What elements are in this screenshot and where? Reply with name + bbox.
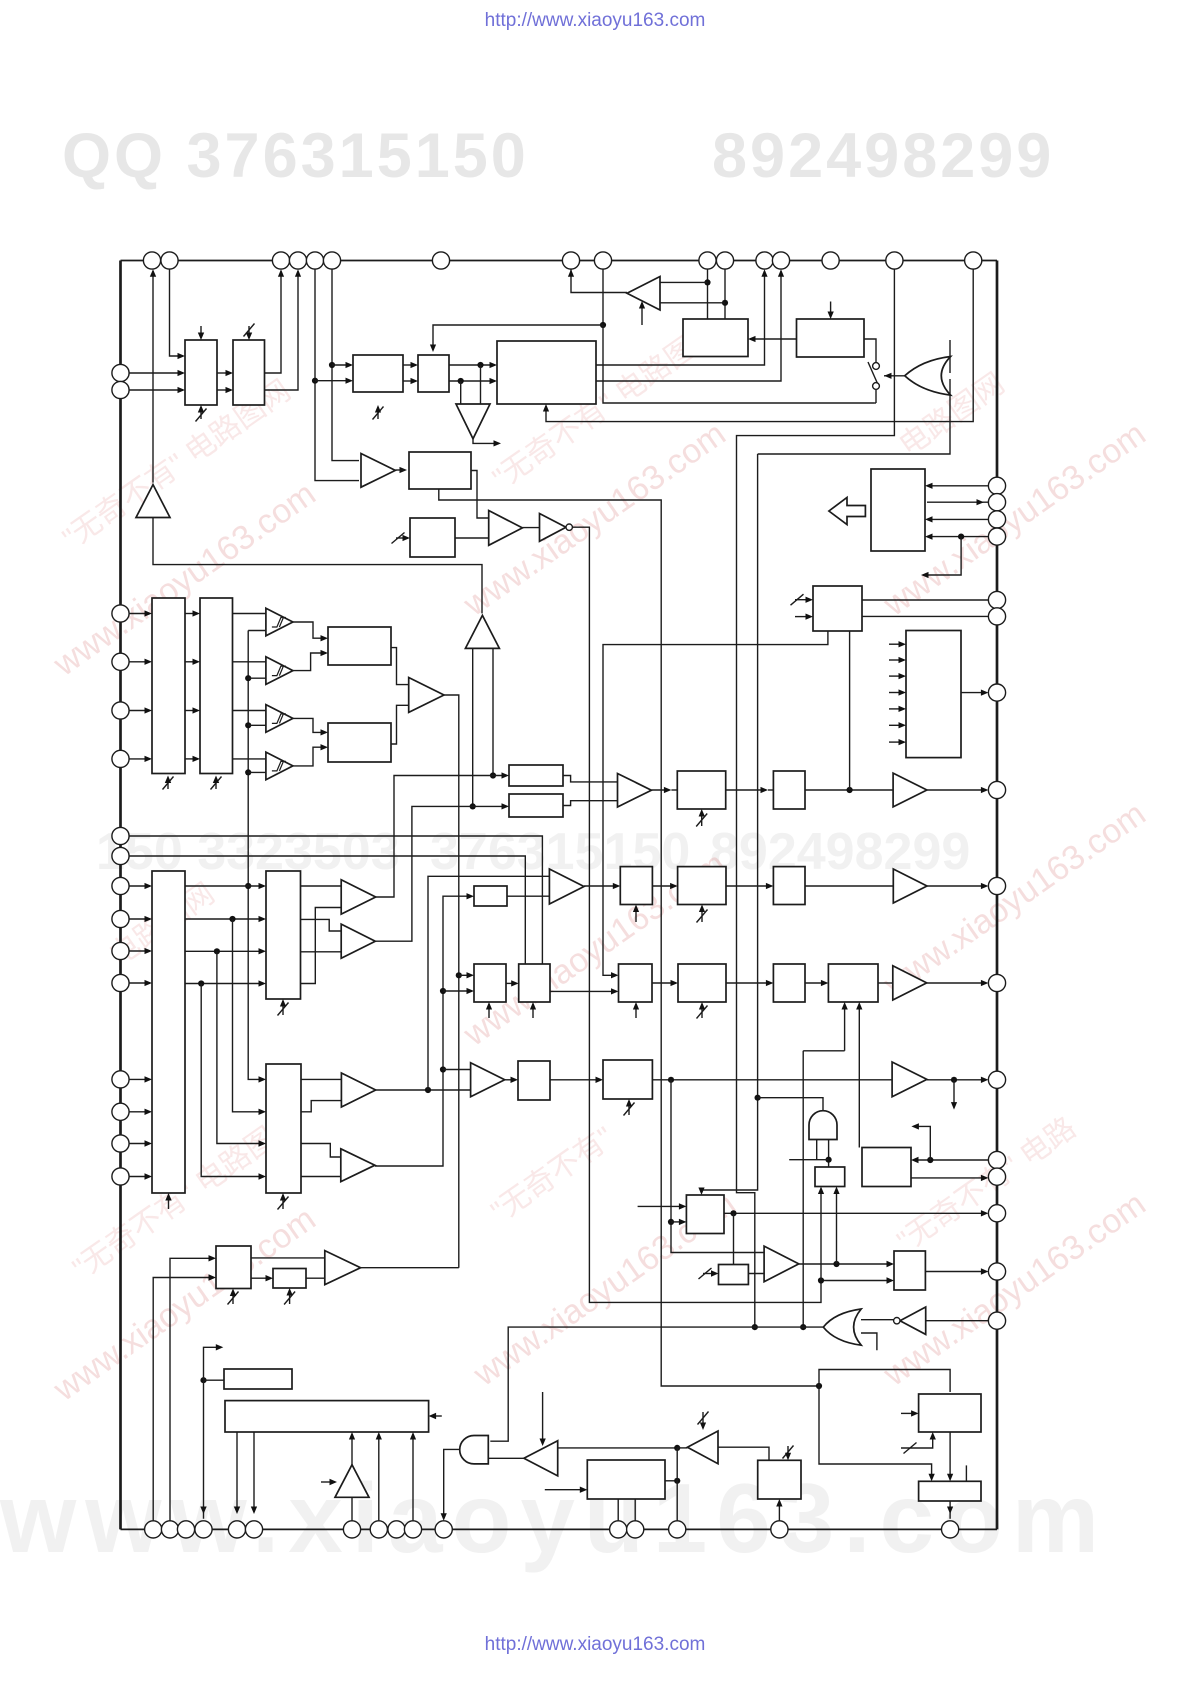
wire U29 to U30 — [726, 885, 771, 887]
wire stub into U41 top — [965, 1465, 967, 1481]
buffer B6 — [618, 774, 652, 808]
top pin 6 (x=332) — [323, 252, 340, 269]
wire J3 down to comparator — [480, 365, 482, 404]
wire pin2 to U1 input — [170, 269, 184, 356]
wire left pin y856 run to U27 top — [129, 856, 525, 964]
wire stub into U20 y=708.9 — [889, 708, 904, 710]
wire stub arrow into A3 left — [321, 1481, 335, 1483]
node J6 — [704, 279, 710, 285]
node J17 — [425, 1087, 431, 1093]
wire U44L out to J27 riser — [665, 1480, 677, 1482]
wire J5 to U4 top — [433, 325, 603, 350]
wire slashed stub into U19 — [795, 599, 811, 601]
node J8 — [752, 1324, 758, 1330]
inverter B20 left-pointing with slash — [687, 1431, 718, 1464]
wire U24 out3 to B11 — [301, 1144, 341, 1158]
watermark top url — [0, 10, 1190, 32]
block U24 — [266, 1064, 301, 1193]
node ST2 ref — [245, 675, 251, 681]
wire U45 out to B21 — [251, 1257, 325, 1259]
wire ST4 out to U13 — [293, 747, 326, 766]
wire G3 output run — [490, 1327, 823, 1441]
hollow arrow pointing left — [829, 498, 866, 525]
wire node J1 to U3 — [315, 380, 351, 382]
wire arrow into B1 bottom — [641, 303, 643, 325]
block U37 — [815, 1167, 845, 1187]
right pin (y=600) — [988, 591, 1005, 608]
wire U31 to U32 — [652, 982, 676, 984]
bottom pin (x=237) — [228, 1521, 245, 1538]
wire U44L to bottom pin a — [617, 1499, 619, 1521]
wire U20 out to right pin — [961, 692, 986, 694]
buffer B16 — [892, 1062, 927, 1097]
block interface U21 — [871, 469, 925, 551]
node J25 — [833, 1261, 839, 1267]
wire U15 out jog to buffer B6 — [563, 801, 618, 806]
wire stub into U19 — [795, 616, 811, 618]
wire B10 out right with riser x430 — [376, 1089, 471, 1091]
wire U33 to U34 — [805, 982, 826, 984]
right pin (y=616.4) — [988, 608, 1005, 625]
wire B15 to right pin — [927, 982, 987, 984]
wire J19 stub down — [953, 1080, 955, 1108]
wire bottom pin x170 up to U45 in1 — [170, 1258, 214, 1521]
block U25 — [474, 886, 507, 906]
bottom pin (x=677.2) — [669, 1521, 686, 1538]
node J16 — [440, 988, 446, 994]
top pin 10 (x=707.5) — [699, 252, 716, 269]
wire U2 out to top pin3 — [265, 271, 282, 373]
right pin (y=536.6) — [988, 528, 1005, 545]
AND gate G2 dome — [809, 1111, 837, 1140]
slashed clock U17 bottom — [696, 814, 707, 827]
block U36 — [603, 1060, 652, 1099]
AND gate G4 left-pointing — [460, 1436, 489, 1464]
block U23 — [266, 871, 301, 999]
wire right pin to B18 — [926, 1320, 989, 1322]
watermark bottom url — [0, 1634, 1190, 1656]
bottom pin (x=378.8) — [370, 1521, 387, 1538]
wire slashed clock into U1 bottom — [200, 407, 202, 419]
block U4 — [418, 355, 449, 392]
slashed into U44 top — [783, 1446, 794, 1459]
block U43 — [894, 1251, 925, 1290]
wire U8 bottom long run x661 — [439, 489, 819, 1386]
left pin 28 (y=983) — [112, 974, 129, 991]
slashed clock U32 bottom — [697, 1006, 708, 1019]
node r2 — [229, 916, 235, 922]
buffer B1 left-pointing — [627, 277, 660, 311]
block U8 — [409, 452, 471, 489]
right pin (y=1271.5) — [988, 1263, 1005, 1280]
wire A1 out to top pin1 — [152, 271, 154, 482]
wire B19 input y1448 net — [558, 1447, 678, 1449]
buffer B21 — [325, 1251, 361, 1285]
wire B5 out down x459 — [444, 695, 459, 1268]
wire G4 out to bottom pin — [444, 1449, 460, 1518]
wire comparator out stub — [473, 439, 499, 444]
wire U30 to buffer B14 — [805, 885, 893, 887]
slashed clock U36 bottom — [624, 1103, 635, 1116]
block U12 — [328, 627, 391, 665]
wire J16 to U27 — [443, 990, 472, 992]
big driver left leg — [472, 648, 474, 806]
left pin 29 (y=1079.4) — [112, 1071, 129, 1088]
top pin 16 (x=973.2) — [965, 252, 982, 269]
wire top pin11 down to U6 — [724, 269, 726, 319]
wire U1 to U2 b — [217, 389, 231, 391]
wire A1 input from y565 run — [153, 518, 482, 614]
wire left pin17 to U1 — [129, 372, 183, 374]
slashed clock into U3 bottom — [373, 407, 384, 420]
block U39 — [686, 1195, 724, 1234]
reference vertical x248 for schmitt lower inputs — [248, 630, 266, 632]
clock U31 bottom — [635, 1004, 637, 1018]
wire U26 to U27 — [506, 982, 517, 984]
wire U32 to U33 — [726, 982, 771, 984]
wire U25 out to B13 low — [507, 895, 549, 897]
buffer B5 — [409, 678, 444, 713]
wire slashed stub into U42 — [703, 1273, 717, 1275]
wire left pin y836 run to U27 top — [129, 836, 542, 964]
arrow into U8 — [400, 467, 408, 473]
wire G2 bottom left leg — [816, 1140, 818, 1160]
watermark gray QQ numbers top — [62, 120, 529, 192]
node J3 — [477, 362, 483, 368]
wire U34 to buffer B15 — [878, 982, 893, 984]
node J15 — [440, 1066, 446, 1072]
wire U28 to U29 — [652, 885, 675, 887]
wire U35 to U36 — [550, 1079, 601, 1081]
big driver triangle A2 up — [465, 615, 499, 648]
wire B17 out to U43 — [799, 1263, 892, 1265]
wire U23 out4 to B8 low — [301, 908, 342, 984]
wire top pin9 down / across y403 — [602, 269, 604, 325]
wire U10 to U11 row4 — [185, 758, 198, 760]
node ST4 ref — [245, 769, 251, 775]
wire U11 to schmitt row2 — [233, 661, 266, 663]
slashed clock U24 bottom — [278, 1197, 289, 1210]
wire left pin to U22L y=919 — [129, 918, 150, 920]
wire U14 out jog to buffer B6 — [563, 776, 618, 782]
wire U43 out to right pin — [925, 1271, 986, 1273]
wire G2 bottom right leg to U37 — [828, 1140, 830, 1168]
right pin (y=790) — [988, 781, 1005, 798]
node AB out1 branch — [245, 883, 251, 889]
block U9 — [410, 518, 455, 557]
node J12 — [490, 772, 496, 778]
watermark gray url bottom — [0, 1462, 1108, 1575]
left pin 23 (y=836) — [112, 827, 129, 844]
buffer B15 — [893, 966, 927, 1000]
long vertical x757 from y454 — [702, 454, 758, 1193]
node J23 — [668, 1219, 674, 1225]
wire U22L out row2 to U23 — [185, 918, 264, 920]
block U13 — [328, 723, 391, 762]
wire left pin to U22L y=951 — [129, 950, 150, 952]
wire U8 out to buffer B3 — [471, 471, 489, 519]
clock U27 bottom — [532, 1004, 534, 1018]
top pin 3 (x=281) — [272, 252, 289, 269]
wire J15 to B12 upper — [443, 1069, 471, 1071]
right pin (y=519.4) — [988, 511, 1005, 528]
wire up to switch contact — [875, 390, 877, 404]
block U29 — [678, 867, 726, 905]
block U31 — [619, 964, 653, 1002]
node J20 — [826, 1157, 832, 1163]
wire J25 up to U37 — [836, 1189, 838, 1265]
node J19 — [951, 1077, 957, 1083]
wire bottom pin x352 to A3 base — [351, 1497, 353, 1521]
right pin (y=502.2) — [988, 494, 1005, 511]
right pin (y=1176.7) — [988, 1168, 1005, 1185]
node r3 — [214, 948, 220, 954]
top pin 7 (x=441) — [432, 252, 449, 269]
wire J23 to U39 — [671, 1221, 684, 1223]
wire buffer B9 out up to U15 input — [375, 806, 507, 941]
wire slashed input into U2 top — [248, 326, 250, 338]
top pin 2 (x=169.5) — [161, 252, 178, 269]
node J18 — [668, 1077, 674, 1083]
wire node J2 to U3 — [332, 364, 351, 366]
wire J10 up to U40 top — [819, 1370, 950, 1393]
wire B20 input from U44 top — [718, 1447, 769, 1460]
node J2 — [329, 362, 335, 368]
wire ST3 out to U13 — [293, 718, 326, 732]
switch S1 contacts — [873, 363, 880, 370]
block U14 — [509, 765, 563, 786]
node J24 — [730, 1210, 736, 1216]
buffer B7 — [893, 773, 927, 807]
left pin 32 (y=1176.5) — [112, 1168, 129, 1185]
left pin 25 (y=886) — [112, 877, 129, 894]
top pin 8 (x=571) — [562, 252, 579, 269]
wire stub into U20 y=644.2 — [889, 643, 904, 645]
wire U9 out to B3 — [455, 537, 489, 539]
left pin 21 (y=710.5) — [112, 702, 129, 719]
wire slashed into B20 top — [702, 1412, 704, 1428]
block U38 — [862, 1148, 911, 1187]
wire U7 to switch — [864, 339, 876, 363]
block U44L — [587, 1460, 665, 1499]
bottom pin (x=413) — [404, 1521, 421, 1538]
bottom pin (x=618.2) — [610, 1521, 627, 1538]
block U44 — [758, 1460, 801, 1499]
schmitt trigger ST4 — [266, 752, 293, 780]
left pin 19 (y=613.5) — [112, 605, 129, 622]
wire top pin16 down along y421 to U5 bottom — [546, 269, 973, 421]
wire bottom pin x153 up to U45 in2 — [153, 1278, 214, 1521]
left pin 30 (y=1111.8) — [112, 1103, 129, 1120]
buffer B9 — [341, 924, 375, 958]
buffer B13 — [549, 869, 584, 904]
amp triangle A1 up — [136, 485, 170, 518]
wire U22L out row3 to U23 — [185, 950, 264, 952]
wire B16 to right pin — [927, 1079, 987, 1081]
wire U44L to bottom pin b — [634, 1499, 636, 1521]
bottom pin (x=443.7) — [435, 1521, 452, 1538]
wire U48 to bottom pin a — [236, 1432, 238, 1512]
buffer B11 — [341, 1149, 375, 1182]
node J10 — [816, 1383, 822, 1389]
block U34 — [828, 964, 878, 1002]
block mux U22L — [152, 871, 185, 1193]
node J21 — [927, 1157, 933, 1163]
top pin 14 (x=830.6) — [822, 252, 839, 269]
wire U10 to U11 row1 — [185, 613, 198, 615]
wire U24 out4 to B11 low — [301, 1176, 341, 1178]
wire U1 to U2 a — [217, 372, 231, 374]
schmitt trigger ST3 — [266, 705, 293, 733]
slashed clock U46 bottom — [284, 1292, 295, 1305]
wire top pin6 down to node — [332, 269, 359, 460]
wire stub into U44L — [545, 1489, 586, 1491]
wire U17 to U18 — [726, 789, 766, 791]
wire right pin to U21 a — [927, 485, 988, 487]
wire left pin to U10 row4 — [129, 758, 150, 760]
right pin (y=886) — [988, 877, 1005, 894]
wire left pin to U10 row3 — [129, 710, 150, 712]
wire J17 up to B13 upper — [428, 876, 549, 1090]
node J7 — [722, 300, 728, 306]
clock U28 bottom — [635, 907, 637, 923]
wire U12 out to buffer B5 — [391, 648, 409, 685]
buffer B14 — [893, 869, 927, 903]
block U15 — [509, 794, 563, 817]
wire ST1 out to U12 — [293, 622, 326, 638]
block input reg U11 — [200, 598, 233, 774]
wire left pin to U10 row1 — [129, 613, 150, 615]
wire B13 to U28 — [584, 885, 618, 887]
wire U45 to U46 — [251, 1277, 271, 1279]
wire B7 to right pin — [927, 789, 987, 791]
wire U11 to schmitt row4 — [233, 758, 266, 760]
wire U13 out to buffer B5 — [391, 705, 409, 744]
wire U34 bottom to x803 net — [844, 1004, 846, 1051]
wire U36 out to buffer B16 — [652, 1079, 892, 1081]
wire stub into U39 — [638, 1205, 685, 1207]
wire U19 out to right pin b — [862, 615, 988, 617]
node J4 — [458, 378, 464, 384]
watermark gray numbers middle — [96, 822, 400, 882]
block register U48 — [225, 1401, 429, 1432]
schmitt trigger ST1 — [266, 608, 293, 636]
bottom pin (x=396.5) — [388, 1521, 405, 1538]
buffer B12 — [471, 1063, 505, 1097]
wire U10 to U11 row2 — [185, 661, 198, 663]
right pin (y=983) — [988, 974, 1005, 991]
block decoder U20 — [906, 631, 961, 758]
wire U22L out row1 to U23 — [185, 885, 264, 887]
wire J18 down x671 — [671, 1080, 764, 1253]
wire J7 to B1 in b — [660, 302, 725, 304]
wire U11 to schmitt row1 — [233, 613, 266, 615]
IC outline border — [121, 260, 998, 262]
wire J29 down to bottom pin — [203, 1380, 205, 1519]
wire bottom pin x378 up into U48 — [378, 1434, 380, 1521]
left pin 24 (y=856) — [112, 847, 129, 864]
bottom pin (x=203.5) — [195, 1521, 212, 1538]
wire J26 up to U37 — [820, 1189, 822, 1281]
wire U4 to U5 a — [449, 364, 495, 366]
top pin 1 (x=152) — [143, 252, 160, 269]
wire U23 out1 to B8 — [301, 885, 342, 887]
wire B14 to right pin — [927, 885, 986, 887]
wire y403 run to switch — [603, 325, 874, 403]
inverter B18 left-pointing — [900, 1307, 926, 1334]
buffer B3 — [489, 511, 523, 546]
right pin (y=1213.3) — [988, 1205, 1005, 1222]
node J9 — [755, 1095, 761, 1101]
wire B12 to U35 — [505, 1079, 516, 1081]
top pin 12 (x=764.5) — [756, 252, 773, 269]
wire y1160 stub — [789, 1159, 828, 1161]
wire U23 out3 to B9 low — [301, 951, 342, 953]
node x459 branch — [456, 972, 462, 978]
inverter B4 — [540, 514, 567, 542]
bottom pin (x=153.2) — [145, 1521, 162, 1538]
slashed clock U45 bottom — [228, 1292, 239, 1305]
wire left pin to U22L low y=1079.4 — [129, 1078, 150, 1080]
block U18 — [773, 771, 805, 809]
wire slashed into U9 — [396, 537, 408, 539]
wire right pin to U21 d — [927, 536, 988, 538]
block U26 — [474, 964, 506, 1002]
wire left pin to U22L low y=1111.8 — [129, 1111, 150, 1113]
right pin (y=692.6) — [988, 684, 1005, 701]
switch S1 lever — [868, 362, 878, 384]
wire G1 input from y454 run — [758, 379, 950, 454]
wire clock U22L bottom — [168, 1195, 170, 1209]
wire stub into U20 y=742.1 — [889, 741, 904, 743]
wire G1 out to switch lever — [884, 375, 905, 377]
inverter B19 left-pointing — [524, 1441, 558, 1476]
wire J4 down to comparator — [460, 381, 462, 404]
wire A3 apex to U48 bottom — [351, 1434, 353, 1465]
wire left pin to U22L y=983 — [129, 982, 150, 984]
wire ST2 out to U12 — [293, 653, 326, 671]
wire stub x543 down to y1448 — [542, 1392, 544, 1444]
block latch U2 — [233, 340, 265, 405]
wire J24 down to U42 top — [733, 1213, 735, 1264]
block U6 — [683, 319, 748, 357]
wire AU input2 y1280 — [821, 1280, 892, 1282]
buffer B10 — [341, 1073, 375, 1107]
wire B21 out to x459 riser — [361, 1267, 459, 1269]
wire J14 stub — [923, 537, 961, 575]
big driver right leg — [492, 648, 494, 775]
wire U42 out to B17 — [748, 1273, 764, 1275]
left pin 20 (y=661.8) — [112, 653, 129, 670]
top pin 4 (x=298) — [289, 252, 306, 269]
wire U23 out2 to B9 — [301, 919, 342, 931]
wire left pin to U22L y=886 — [129, 885, 150, 887]
wire left pin to U22L low y=1143.5 — [129, 1143, 150, 1145]
left pin 26 (y=919) — [112, 910, 129, 927]
block U19 — [813, 586, 862, 631]
wire to U22 row3 — [459, 974, 472, 976]
node J29 — [200, 1377, 206, 1383]
left pin 27 (y=951) — [112, 942, 129, 959]
right pin (y=1079.8) — [988, 1071, 1005, 1088]
wire U24 out2 to B10 low — [301, 1101, 341, 1112]
wire U34 bottom second — [858, 1004, 860, 1148]
right pin (y=1160) — [988, 1151, 1005, 1168]
wire B1 out to top pin8 — [571, 269, 627, 292]
wire B18 out to G3 — [861, 1319, 894, 1321]
top pin 5 (x=315) — [306, 252, 323, 269]
block U46 — [273, 1269, 306, 1289]
